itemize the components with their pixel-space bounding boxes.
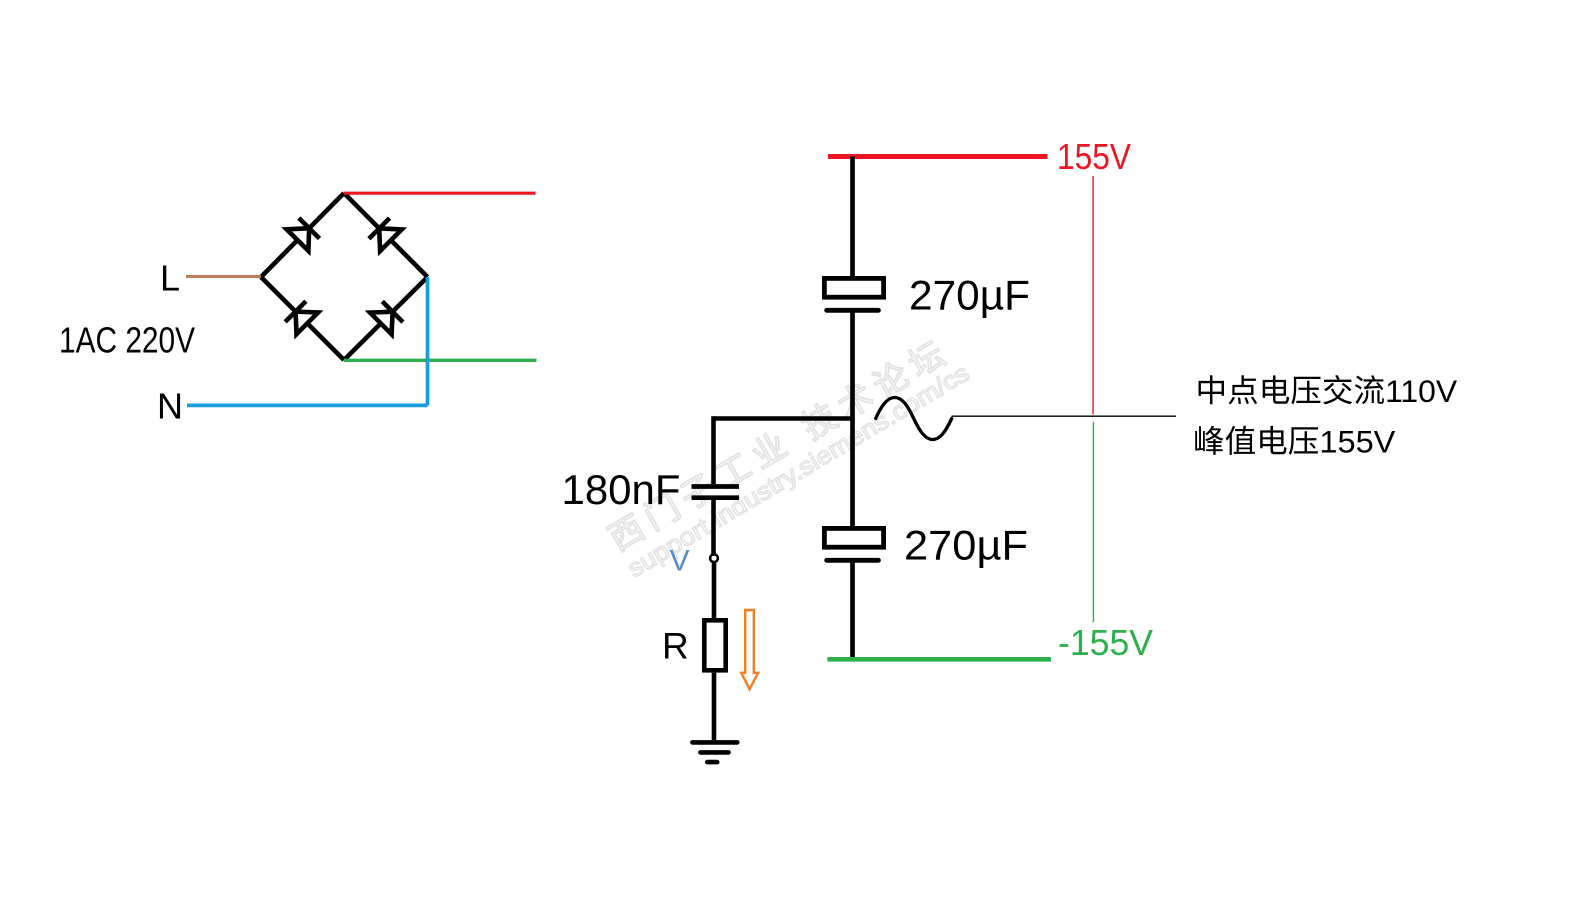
wire 180nF to node V [711,500,716,554]
wire L phase (brown) [186,275,261,278]
wire node V to resistor [712,562,717,620]
wire -155V reference (thin green) [1092,422,1094,623]
wire main vertical bottom segment [850,562,855,660]
svg-text:R: R [662,626,689,667]
watermark [605,337,974,583]
capacitor C1 270uF (top) [824,278,883,297]
label peak voltage line 2 (CJK) [1195,426,1223,455]
wire bridge arm B-R [344,277,428,360]
node +155V bus (red) [828,154,1048,159]
wire - output of bridge (green) [344,359,537,362]
capacitor C3 180nF [692,484,740,489]
svg-text:N: N [157,386,183,427]
label midpoint voltage line 1 (CJK) [1199,375,1224,404]
svg-text:270µF: 270µF [909,271,1030,318]
wire main vertical top segment [850,157,855,278]
wire N neutral vertical (blue) [426,277,430,405]
wire midpoint annotation line (thin black) [952,415,1177,417]
svg-text:155V: 155V [1057,136,1131,177]
svg-text:180nF: 180nF [562,466,681,513]
wire 155V reference (thin red) [1092,176,1094,415]
diode D3 (- to L) [296,312,319,335]
wire midpoint horizontal [714,416,853,421]
AC sine symbol at midpoint [876,398,952,440]
diode D2 (N to +) [379,228,402,251]
svg-text:270µF: 270µF [904,522,1028,569]
wire main vertical middle segment [850,312,855,528]
svg-text:V: V [670,545,690,578]
svg-text:1AC 220V: 1AC 220V [59,320,195,361]
wire bridge arm T-R [344,193,428,277]
wire + output of bridge (red) [344,192,536,195]
wire resistor to ground [712,673,717,740]
node V (open circle) [710,554,718,562]
wire bridge arm L-T [261,193,344,277]
svg-text:110V: 110V [1385,373,1457,409]
svg-text:L: L [160,257,180,298]
node -155V bus (green) [827,657,1051,662]
current arrow (orange) [741,610,758,689]
svg-text:155V: 155V [1319,423,1395,459]
diode D1 (L to +) [287,228,310,251]
resistor R [704,620,725,670]
svg-text:-155V: -155V [1058,622,1153,663]
wire 180nF branch vertical upper [711,416,716,484]
wire bridge arm L-B [261,277,344,360]
wire N neutral horizontal (blue) [187,404,428,408]
capacitor C2 270uF (bottom) [824,528,883,547]
ground [692,740,737,745]
diode D4 (- to N) [370,312,393,335]
